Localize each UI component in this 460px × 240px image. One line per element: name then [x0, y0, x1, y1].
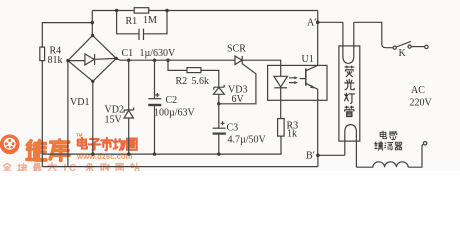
node bridge bottom rail junction	[91, 152, 94, 155]
wire bottom rail	[42, 136, 281, 154]
wire SCR gate	[219, 64, 256, 104]
optocoupler U1 box	[268, 65, 327, 100]
wire bridge left vertex down	[67, 61, 69, 167]
svg-text:K: K	[399, 48, 407, 59]
tube top filament	[343, 22, 354, 63]
svg-text:SCR: SCR	[227, 44, 246, 55]
capacitor C1 branch	[117, 11, 167, 34]
svg-text:VD1: VD1	[70, 97, 89, 108]
wire B prime drop	[317, 155, 319, 166]
capacitor C2	[154, 60, 156, 98]
AC source bottom terminal	[423, 142, 426, 145]
resistor R2	[168, 60, 219, 87]
watermark text 电子市场网	[78, 138, 137, 150]
svg-text:100µ/63V: 100µ/63V	[154, 108, 196, 119]
switch K	[393, 46, 396, 49]
node bridge bottom vertex	[91, 80, 94, 83]
node VD2 top junction	[127, 59, 130, 62]
svg-text:AC: AC	[411, 85, 425, 96]
node C2 rail junction	[153, 152, 156, 155]
svg-text:www.dzsc.com: www.dzsc.com	[76, 152, 133, 161]
wire bottom outer line	[42, 166, 318, 168]
resistor R1	[134, 8, 149, 13]
svg-text:15V: 15V	[105, 115, 123, 126]
capacitor C3	[218, 94, 220, 128]
node R1 left junction	[115, 9, 118, 12]
optocoupler light arrows	[289, 78, 297, 83]
wire bridge bottom vertex down	[92, 81, 94, 154]
watermark big text 维库	[27, 140, 69, 160]
optocoupler phototransistor	[305, 68, 307, 86]
node bridge left vertex	[66, 59, 69, 62]
wire B prime to tube	[318, 154, 345, 156]
wire R4 bottom	[41, 61, 43, 167]
node R4 top junction	[91, 21, 94, 24]
svg-text:220V: 220V	[410, 98, 433, 109]
label ballast 镇流器	[375, 142, 402, 150]
svg-text:U1: U1	[302, 54, 314, 65]
node R1 right junction	[165, 9, 168, 12]
svg-text:1µ/630V: 1µ/630V	[140, 48, 177, 59]
wire R4 top	[42, 23, 92, 47]
wire top rail	[92, 10, 317, 12]
svg-text:R1: R1	[126, 16, 138, 27]
node B prime	[316, 154, 320, 158]
wire DC plus	[116, 58, 281, 76]
node gate junction	[217, 102, 220, 105]
resistor R4	[40, 47, 45, 61]
svg-text:C1: C1	[122, 48, 134, 59]
wire bridge top to rail	[91, 11, 93, 36]
zener diode VD3	[214, 85, 224, 90]
svg-text:5.6k: 5.6k	[192, 76, 210, 87]
label fluorescent tube 荧光灯管	[345, 66, 355, 117]
label ballast 电感	[380, 131, 397, 139]
bridge rectifier VD1	[68, 36, 116, 82]
svg-text:A′: A′	[307, 18, 316, 29]
node bridge right vertex	[115, 57, 118, 60]
svg-text:6V: 6V	[232, 94, 245, 105]
thyristor SCR	[235, 56, 242, 65]
watermark logo	[0, 134, 20, 154]
diode VD2	[128, 60, 130, 110]
inductor ballast coil	[356, 162, 408, 167]
svg-text:1M: 1M	[143, 15, 157, 26]
watermark bottom row 全球最大IC采购网站	[3, 162, 138, 171]
svg-text:81k: 81k	[48, 55, 63, 66]
node C2 top junction	[153, 59, 156, 62]
tube bottom filament	[345, 125, 357, 168]
wire A prime to lamp	[318, 21, 343, 23]
node C3 rail junction	[217, 152, 220, 155]
svg-text:1k: 1k	[287, 129, 297, 140]
fluorescent tube box	[339, 46, 360, 141]
node A prime	[316, 21, 320, 25]
svg-text:B′: B′	[306, 151, 315, 162]
node bridge top vertex	[91, 34, 94, 37]
wire lamp right pin to switch	[354, 22, 393, 47]
node R2 top junction	[166, 59, 169, 62]
node VD2 rail junction	[127, 152, 130, 155]
optocoupler LED	[274, 76, 288, 87]
svg-text:4.7µ/50V: 4.7µ/50V	[228, 135, 267, 146]
svg-text:C3: C3	[227, 123, 239, 134]
resistor R3	[278, 119, 285, 137]
svg-text:R2: R2	[176, 76, 188, 87]
wire A prime vertical	[317, 11, 319, 66]
svg-text:C2: C2	[166, 95, 178, 106]
